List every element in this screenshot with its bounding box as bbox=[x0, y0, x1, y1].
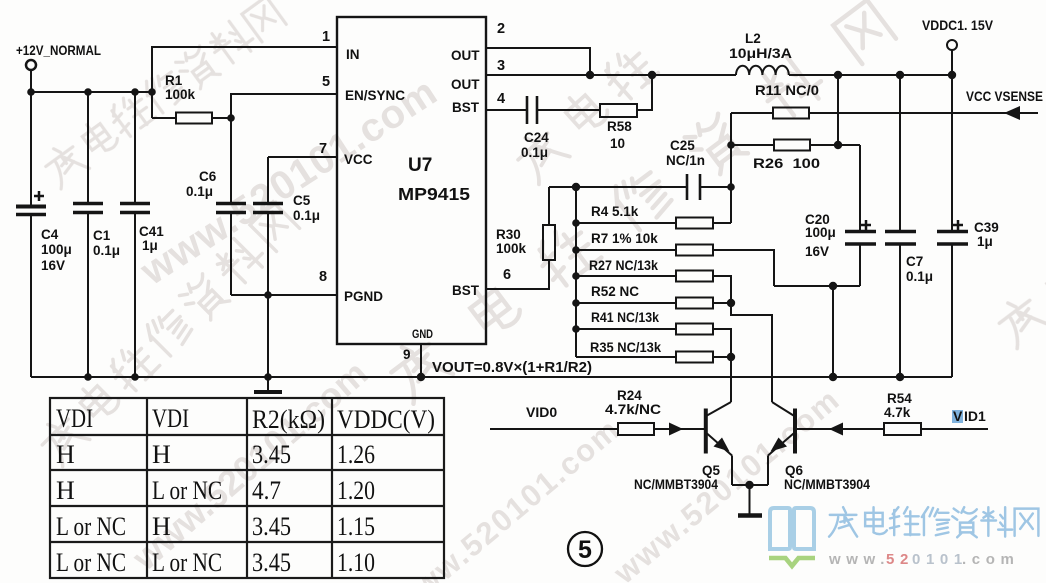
svg-text:0.1μ: 0.1μ bbox=[293, 208, 320, 223]
svg-text:IN: IN bbox=[346, 47, 360, 62]
inductor L2 bbox=[736, 66, 789, 75]
wire input bus y92 bbox=[31, 91, 152, 93]
svg-text:100μ: 100μ bbox=[41, 242, 72, 257]
wire EN/SYNC pin5 bbox=[231, 94, 337, 118]
terminal VDDC1.15V bbox=[947, 40, 957, 75]
arrow VID1 bbox=[829, 423, 843, 436]
capacitor C4 bbox=[16, 92, 46, 377]
logo book base bbox=[769, 558, 815, 566]
svg-text:PGND: PGND bbox=[344, 289, 383, 304]
svg-text:16V: 16V bbox=[41, 258, 65, 273]
node lad-R52 bbox=[572, 299, 580, 307]
terminal +12V_NORMAL bbox=[26, 60, 36, 92]
node R26 left bbox=[727, 141, 735, 149]
node input-R1 bbox=[148, 88, 156, 96]
svg-text:6: 6 bbox=[503, 267, 511, 283]
svg-text:0.1μ: 0.1μ bbox=[93, 243, 120, 258]
transistor Q5 bbox=[706, 402, 732, 485]
svg-text:1.26: 1.26 bbox=[337, 440, 375, 469]
svg-text:www.520101.com: www.520101.com bbox=[132, 69, 445, 294]
logo title bbox=[829, 507, 1038, 537]
node C20-gnd branch bbox=[829, 282, 837, 290]
label VID1 bbox=[952, 408, 986, 424]
svg-text:10μH/3A: 10μH/3A bbox=[729, 46, 792, 61]
svg-text:VOUT=0.8V×(1+R1/R2): VOUT=0.8V×(1+R1/R2) bbox=[432, 360, 592, 376]
svg-text:R26 100: R26 100 bbox=[753, 156, 820, 171]
svg-text:C6: C6 bbox=[199, 169, 217, 184]
svg-text:NC/1n: NC/1n bbox=[666, 153, 705, 168]
LOGO bbox=[769, 507, 1038, 568]
svg-text:C39: C39 bbox=[974, 220, 999, 235]
svg-text:R24: R24 bbox=[617, 388, 642, 403]
watermark fragment chip right bbox=[510, 43, 661, 185]
wire PGND to ground bus bbox=[267, 295, 269, 377]
svg-text:MP9415: MP9415 bbox=[398, 184, 470, 204]
svg-text:VCC: VCC bbox=[344, 152, 373, 167]
wire feedback y187 bbox=[549, 186, 687, 188]
wire VSENSE bbox=[809, 112, 1038, 114]
watermark fragment right edge bbox=[992, 258, 1046, 348]
node lad-R7 bbox=[572, 246, 580, 254]
svg-text:Q6: Q6 bbox=[785, 463, 804, 478]
ground Q5Q6 bbox=[738, 485, 762, 516]
node lad-R27 bbox=[572, 272, 580, 280]
resistor R41 bbox=[576, 324, 731, 358]
resistor R1 bbox=[152, 113, 231, 124]
svg-text:ID1: ID1 bbox=[964, 408, 986, 424]
node gnd9 bbox=[417, 373, 425, 381]
svg-text:VID0: VID0 bbox=[526, 404, 557, 420]
watermark hanzi band big center bbox=[382, 0, 897, 405]
svg-text:1.20: 1.20 bbox=[337, 476, 375, 505]
svg-text:3: 3 bbox=[497, 58, 505, 74]
arrow VSENSE bbox=[1004, 106, 1020, 120]
svg-text:52: 52 bbox=[886, 551, 914, 568]
watermark hanzi band upper-left bbox=[39, 0, 287, 190]
TABLE bbox=[50, 398, 444, 578]
svg-text:C41: C41 bbox=[139, 224, 164, 239]
svg-text:0.1μ: 0.1μ bbox=[186, 184, 213, 199]
node c20 bus bbox=[829, 373, 837, 381]
resistor R4 bbox=[576, 218, 731, 229]
svg-text:BST: BST bbox=[452, 283, 480, 298]
node lad-R4 bbox=[572, 219, 580, 227]
svg-text:H: H bbox=[152, 512, 171, 541]
svg-text:C24: C24 bbox=[524, 130, 549, 145]
svg-text:C5: C5 bbox=[293, 193, 311, 208]
node input-C1 bbox=[84, 88, 92, 96]
wire GND pin9 bbox=[420, 344, 422, 377]
svg-text:0.1μ: 0.1μ bbox=[906, 269, 933, 284]
svg-text:R30: R30 bbox=[496, 227, 521, 242]
capacitor C41 bbox=[120, 92, 150, 377]
svg-text:R58: R58 bbox=[607, 119, 632, 134]
svg-text:NC/MMBT3904: NC/MMBT3904 bbox=[634, 477, 718, 492]
svg-text:R27 NC/13k: R27 NC/13k bbox=[589, 258, 658, 273]
capacitor C39 bbox=[937, 75, 968, 377]
svg-text:10: 10 bbox=[610, 136, 625, 151]
node out-R58 bbox=[648, 71, 656, 79]
svg-text:L or NC: L or NC bbox=[56, 548, 126, 577]
svg-text:R54: R54 bbox=[887, 391, 912, 406]
svg-text:R52 NC: R52 NC bbox=[591, 284, 639, 299]
node R27-R52 bbox=[727, 299, 735, 307]
table grid bbox=[50, 398, 444, 578]
svg-text:VDDC1. 15V: VDDC1. 15V bbox=[922, 17, 994, 33]
svg-text:R1: R1 bbox=[165, 73, 183, 88]
svg-text:C25: C25 bbox=[670, 138, 695, 153]
wire R4 riser bbox=[730, 113, 732, 223]
resistor R35 bbox=[576, 352, 731, 363]
node emitter bbox=[745, 481, 753, 489]
svg-text:+12V_NORMAL: +12V_NORMAL bbox=[16, 42, 101, 58]
svg-text:R7 1% 10k: R7 1% 10k bbox=[591, 231, 658, 246]
svg-text:0101: 0101 bbox=[912, 551, 968, 568]
resistor R7 bbox=[576, 245, 774, 287]
transistor Q6 bbox=[768, 402, 795, 485]
svg-text:VDDC(V): VDDC(V) bbox=[337, 405, 435, 434]
svg-text:1.10: 1.10 bbox=[337, 548, 375, 577]
svg-text:C1: C1 bbox=[93, 228, 111, 243]
svg-text:5: 5 bbox=[578, 536, 592, 564]
capacitor C20 bbox=[845, 145, 876, 286]
wire R52 jog to Q6 collector bbox=[731, 303, 772, 402]
op-amp U7 MP9415 body bbox=[337, 17, 486, 344]
node C7 bus bbox=[896, 373, 904, 381]
resistor R24 bbox=[618, 423, 704, 435]
circled 5 bbox=[568, 532, 602, 566]
resistor R11 bbox=[731, 108, 809, 119]
node input-C4 bbox=[27, 88, 35, 96]
wire R1 riser to pin1 bbox=[152, 47, 337, 118]
wire VID0 bbox=[490, 428, 618, 430]
svg-text:1μ: 1μ bbox=[977, 234, 993, 249]
node fb bbox=[572, 183, 580, 191]
svg-text:3.45: 3.45 bbox=[252, 440, 291, 469]
node sw-C7 bbox=[896, 71, 904, 79]
svg-text:16V: 16V bbox=[805, 244, 829, 259]
svg-text:H: H bbox=[56, 440, 75, 469]
svg-text:4.7k: 4.7k bbox=[884, 405, 911, 420]
svg-text:3.45: 3.45 bbox=[252, 548, 291, 577]
svg-text:L or NC: L or NC bbox=[152, 548, 222, 577]
svg-text:OUT: OUT bbox=[451, 77, 480, 92]
wire VCC pin7 bbox=[268, 156, 337, 158]
svg-text:100μ: 100μ bbox=[805, 225, 836, 240]
resistor R52 bbox=[576, 298, 731, 309]
svg-text:7: 7 bbox=[319, 141, 327, 157]
wire L2 to VDDC bbox=[789, 74, 952, 76]
svg-text:0.1μ: 0.1μ bbox=[521, 145, 548, 160]
svg-text:100k: 100k bbox=[496, 241, 527, 256]
svg-text:NC/MMBT3904: NC/MMBT3904 bbox=[784, 477, 870, 492]
svg-text:8: 8 bbox=[319, 269, 327, 285]
svg-text:H: H bbox=[56, 476, 75, 505]
svg-text:H: H bbox=[152, 440, 171, 469]
svg-text:C7: C7 bbox=[906, 254, 923, 269]
node R1-EN bbox=[227, 114, 235, 122]
capacitor C1 bbox=[73, 92, 103, 377]
svg-text:1μ: 1μ bbox=[142, 238, 158, 253]
svg-text:V: V bbox=[953, 408, 963, 424]
watermark hanzi band table bbox=[34, 201, 301, 468]
ground symbol left bbox=[254, 377, 282, 392]
svg-text:L2: L2 bbox=[745, 31, 761, 46]
node R41-R35 bbox=[727, 353, 735, 361]
wire ground bus bbox=[31, 376, 952, 378]
wire common emitter bbox=[732, 484, 768, 486]
svg-text:100k: 100k bbox=[165, 87, 196, 102]
node C5-PGND bbox=[264, 291, 272, 299]
svg-text:GND: GND bbox=[412, 327, 433, 341]
capacitor C6 bbox=[216, 118, 246, 295]
resistor R27 bbox=[576, 271, 731, 304]
node sw-VDDC bbox=[948, 71, 956, 79]
node sw-R26 bbox=[834, 71, 842, 79]
svg-text:Q5: Q5 bbox=[702, 463, 721, 478]
svg-text:OUT: OUT bbox=[451, 48, 480, 63]
svg-text:.com: .com bbox=[962, 551, 1019, 568]
svg-text:4.7: 4.7 bbox=[252, 476, 281, 505]
wire Q5 collector riser bbox=[730, 357, 732, 402]
svg-text:3.45: 3.45 bbox=[252, 512, 291, 541]
svg-text:9: 9 bbox=[403, 347, 411, 362]
logo book icon bbox=[770, 508, 814, 549]
svg-text:www.: www. bbox=[828, 551, 890, 568]
svg-text:VDI: VDI bbox=[56, 404, 93, 433]
svg-text:1.15: 1.15 bbox=[337, 512, 375, 541]
wire C20 bottom bbox=[774, 285, 860, 287]
capacitor C24 bbox=[486, 96, 600, 124]
wire R26 to switch node bbox=[837, 75, 839, 145]
svg-text:2: 2 bbox=[497, 21, 505, 37]
wire VID1 bbox=[797, 428, 884, 430]
svg-text:R11 NC/0: R11 NC/0 bbox=[755, 83, 819, 98]
node C41-gnd bbox=[131, 373, 139, 381]
resistor R26 bbox=[731, 140, 860, 151]
svg-text:4: 4 bbox=[497, 91, 505, 107]
svg-text:L or NC: L or NC bbox=[152, 476, 222, 505]
resistor R54 bbox=[884, 423, 988, 435]
node pgnd-gnd bbox=[264, 373, 272, 381]
svg-text:EN/SYNC: EN/SYNC bbox=[345, 88, 405, 103]
node lad-R41 bbox=[572, 325, 580, 333]
resistor R30 bbox=[543, 187, 555, 260]
wire OUT pin3 bbox=[486, 74, 736, 76]
svg-text:R2(kΩ): R2(kΩ) bbox=[252, 405, 325, 434]
node input-C41 bbox=[131, 88, 139, 96]
capacitor C25 bbox=[687, 174, 731, 200]
node C1-gnd bbox=[84, 373, 92, 381]
node C25 right bbox=[727, 183, 735, 191]
svg-text:VDI: VDI bbox=[152, 404, 189, 433]
svg-text:BST: BST bbox=[452, 100, 480, 115]
wire PGND pin8 bbox=[231, 294, 337, 296]
wire OUT pin2 bbox=[486, 48, 590, 75]
svg-text:C4: C4 bbox=[41, 227, 59, 242]
resistor R58 bbox=[600, 75, 652, 117]
svg-text:5: 5 bbox=[322, 74, 330, 90]
capacitor C5 bbox=[253, 157, 283, 295]
wire C20gnd riser bbox=[832, 286, 834, 377]
wire BST pin6 bbox=[486, 260, 549, 289]
svg-text:R35 NC/13k: R35 NC/13k bbox=[590, 340, 661, 355]
svg-text:1: 1 bbox=[322, 29, 330, 45]
svg-text:L or NC: L or NC bbox=[56, 512, 126, 541]
svg-text:R41 NC/13k: R41 NC/13k bbox=[591, 310, 659, 325]
svg-text:R4 5.1k: R4 5.1k bbox=[591, 204, 639, 219]
node R26 right bbox=[834, 141, 842, 149]
wire ladder spine bbox=[575, 187, 577, 357]
arrow VID0 bbox=[669, 423, 683, 436]
logo url bbox=[828, 551, 1019, 568]
node out23 bbox=[586, 71, 594, 79]
svg-text:U7: U7 bbox=[408, 155, 432, 176]
capacitor C7 bbox=[885, 75, 916, 377]
svg-text:VCC VSENSE: VCC VSENSE bbox=[966, 89, 1043, 104]
svg-text:4.7k/NC: 4.7k/NC bbox=[605, 402, 661, 417]
